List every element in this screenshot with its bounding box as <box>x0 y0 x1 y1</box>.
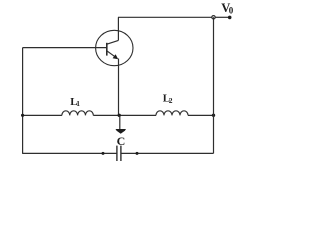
svg-text:1: 1 <box>76 99 80 108</box>
node: left tank junction <box>21 114 24 117</box>
node: output corner junction <box>212 16 215 19</box>
node: center tap junction <box>118 114 121 117</box>
wire: ground stub from center tap <box>119 115 121 129</box>
wire: bottom rail right of C <box>121 152 214 154</box>
ground arrow symbol <box>116 129 127 134</box>
node: Vo terminal dot <box>228 16 232 20</box>
wire: middle bus right segment <box>188 114 214 116</box>
inductor L1 <box>62 111 93 116</box>
wire: right vertical (output corner to bottom rail) <box>213 17 215 153</box>
wire: middle bus center segment <box>93 114 156 116</box>
wire: bottom rail left of C <box>22 152 117 154</box>
transistor Q1 circle <box>96 30 133 65</box>
node: bottom rail left dot <box>102 152 105 155</box>
capacitor C left plate <box>116 146 118 161</box>
node: bottom rail right dot <box>136 152 139 155</box>
inductor L2 <box>156 111 188 116</box>
capacitor C right plate <box>120 146 122 161</box>
wire: top rail from collector to output corner <box>118 16 212 18</box>
transistor Q1 base bar <box>106 43 108 56</box>
transistor Q1 emitter diagonal <box>107 51 117 59</box>
wire: output stub to terminal <box>215 16 229 18</box>
svg-text:0: 0 <box>229 6 234 16</box>
wire: middle bus left segment <box>23 114 62 116</box>
node: right tank junction <box>212 114 215 117</box>
wire: left vertical (base to bottom rail) <box>22 48 24 154</box>
wire: emitter vertical down to tank tap <box>118 59 120 116</box>
transistor Q1 emitter arrowhead <box>113 54 119 59</box>
wire: collector vertical <box>117 17 119 40</box>
wire: base lead <box>23 47 107 49</box>
transistor Q1 collector diagonal <box>107 40 119 44</box>
svg-text:2: 2 <box>169 96 173 105</box>
svg-text:C: C <box>117 134 126 148</box>
